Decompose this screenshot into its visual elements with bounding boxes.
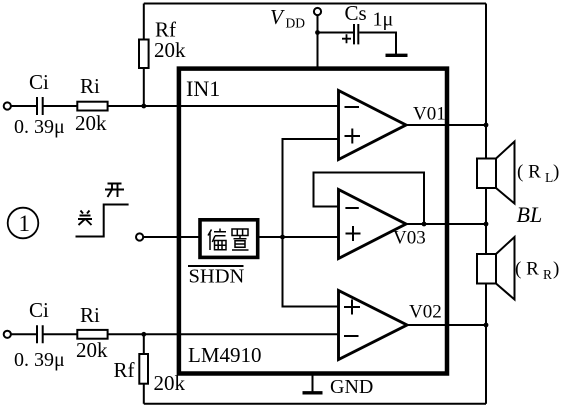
label V03	[393, 228, 426, 249]
label VDD	[270, 5, 305, 31]
svg-text:DD: DD	[286, 16, 306, 31]
resistor Ri (top)	[77, 102, 107, 111]
node: bias line junction	[280, 235, 285, 240]
svg-text:V02: V02	[409, 302, 442, 323]
resistor Rf (top) with connecting wires	[139, 4, 149, 107]
wire: Ci to Ri	[43, 105, 77, 107]
capacitor Ci (top) 0.39u	[37, 97, 43, 115]
wire: Cs to ground	[359, 33, 396, 55]
svg-text:20k: 20k	[76, 338, 108, 362]
svg-text:R: R	[543, 267, 552, 282]
node: V02 on bus	[484, 323, 489, 328]
ground GND pin of IC	[303, 374, 323, 393]
label BL	[517, 202, 543, 227]
label GND	[330, 376, 373, 398]
shutdown input terminal	[136, 233, 143, 240]
VDD terminal	[314, 8, 321, 15]
wire: output bus top segment to speaker RL	[485, 4, 487, 159]
svg-text:V03: V03	[393, 228, 426, 249]
speaker RR	[477, 237, 515, 300]
svg-text:Ci: Ci	[29, 70, 49, 94]
svg-text:V01: V01	[413, 104, 446, 125]
op-amp A3 (bottom)	[339, 291, 408, 360]
node: IN2 feedback junction	[141, 332, 146, 337]
label 20k (Rf top)	[154, 38, 186, 62]
node: V03 on bus	[484, 222, 489, 227]
node: IN1 feedback junction	[141, 104, 146, 109]
wire: A2 output V03 to bus	[406, 223, 486, 225]
wire: VDD terminal down to IC top	[317, 15, 319, 69]
annotation glyph guan (off)	[78, 211, 92, 226]
IC LM4910 package outline	[179, 69, 447, 374]
svg-text:Cs: Cs	[345, 1, 367, 25]
label V01	[413, 104, 446, 125]
label IN1	[186, 76, 220, 101]
wire: A3 output V02 to bus	[407, 324, 486, 326]
svg-text:( R: ( R	[515, 259, 539, 280]
annotation: on/off step waveform	[76, 205, 129, 237]
svg-text:Rf: Rf	[114, 358, 135, 382]
svg-text:Ri: Ri	[80, 303, 100, 327]
wire: VDD node to Cs	[318, 32, 354, 34]
svg-text:0. 39μ: 0. 39μ	[14, 349, 65, 371]
label 0.39u (bottom)	[14, 349, 65, 371]
label Ri (bottom)	[80, 303, 100, 327]
label Rf (top)	[155, 18, 176, 42]
label SHDN with overline	[188, 266, 245, 288]
wire: output bus segment between speakers	[485, 188, 487, 254]
label 20k (Rf bottom)	[154, 371, 186, 395]
input terminal 1	[4, 102, 11, 109]
node: A2 feedback tap on output	[422, 222, 427, 227]
label Cs	[345, 1, 367, 25]
node: VDD / Cs tap	[315, 30, 320, 35]
svg-text:1: 1	[19, 211, 31, 236]
wire: bias line to A1 and A3 non-inverting inputs	[283, 139, 339, 307]
label V02	[409, 302, 442, 323]
svg-text:SHDN: SHDN	[189, 266, 245, 288]
op-amp A2 (middle)	[339, 190, 407, 259]
label 1u	[373, 9, 394, 31]
svg-text:Ci: Ci	[29, 298, 49, 322]
svg-text:( R: ( R	[517, 162, 541, 183]
figure number 1 in circle	[8, 208, 39, 239]
label Rf (bottom)	[114, 358, 135, 382]
svg-text:20k: 20k	[154, 371, 186, 395]
wire: SHDN terminal to bias block	[143, 236, 200, 238]
ground (Cs bypass)	[386, 54, 408, 57]
label 20k (Ri bottom)	[76, 338, 108, 362]
svg-text:LM4910: LM4910	[188, 343, 262, 367]
wire: top feedback rail (Rf top to output bus)	[144, 3, 486, 5]
label (RR)	[515, 259, 559, 283]
label LM4910	[188, 343, 262, 367]
speaker RL	[477, 142, 515, 204]
svg-text:IN1: IN1	[186, 76, 220, 101]
label 20k (Ri top)	[75, 111, 107, 135]
bias block (pian zhi)	[200, 220, 258, 258]
label bias glyph zhi	[232, 229, 249, 250]
capacitor Cs 1u polarized	[342, 24, 358, 44]
label (RL)	[517, 162, 559, 186]
input terminal 2	[4, 331, 11, 338]
resistor Rf (bottom) with connecting wires	[139, 334, 148, 404]
svg-text:): )	[553, 259, 559, 280]
wire: A2 feedback loop output to inverting input	[314, 173, 425, 225]
node: V01 on bus	[484, 123, 489, 128]
svg-text:V: V	[270, 5, 285, 29]
svg-text:1μ: 1μ	[373, 9, 394, 31]
wire: Ri to IC pin IN2 and A3 inverting input	[108, 333, 339, 335]
wire: input terminal 1 to Ci	[11, 105, 37, 107]
label 0.39u	[14, 116, 65, 138]
svg-text:BL: BL	[517, 202, 543, 227]
label Ri	[80, 74, 100, 98]
wire: output bus bottom segment	[485, 284, 487, 404]
svg-text:): )	[553, 162, 559, 183]
svg-text:0. 39μ: 0. 39μ	[14, 116, 65, 138]
label Ci	[29, 70, 49, 94]
wire: Ci to Ri (bottom)	[43, 333, 77, 335]
svg-text:20k: 20k	[154, 38, 186, 62]
wire: input terminal 2 to Ci	[11, 333, 37, 335]
svg-text:Ri: Ri	[80, 74, 100, 98]
resistor Ri (bottom)	[77, 330, 107, 339]
wire: bias block output to A2 non-inverting input	[260, 236, 339, 238]
svg-text:GND: GND	[330, 376, 373, 398]
label bias glyph pian	[208, 229, 226, 251]
annotation glyph kai (on)	[105, 184, 124, 198]
label Ci (bottom)	[29, 298, 49, 322]
wire: Ri to IC pin IN1 and op-amp A1 inverting input	[108, 105, 339, 107]
op-amp A1 (top)	[339, 91, 407, 160]
wire: bottom feedback rail (bus to Rf bottom)	[144, 403, 486, 405]
capacitor Ci (bottom) 0.39u	[37, 325, 43, 343]
svg-text:20k: 20k	[75, 111, 107, 135]
wire: A1 output V01 to bus	[406, 124, 486, 126]
svg-text:L: L	[545, 170, 553, 185]
